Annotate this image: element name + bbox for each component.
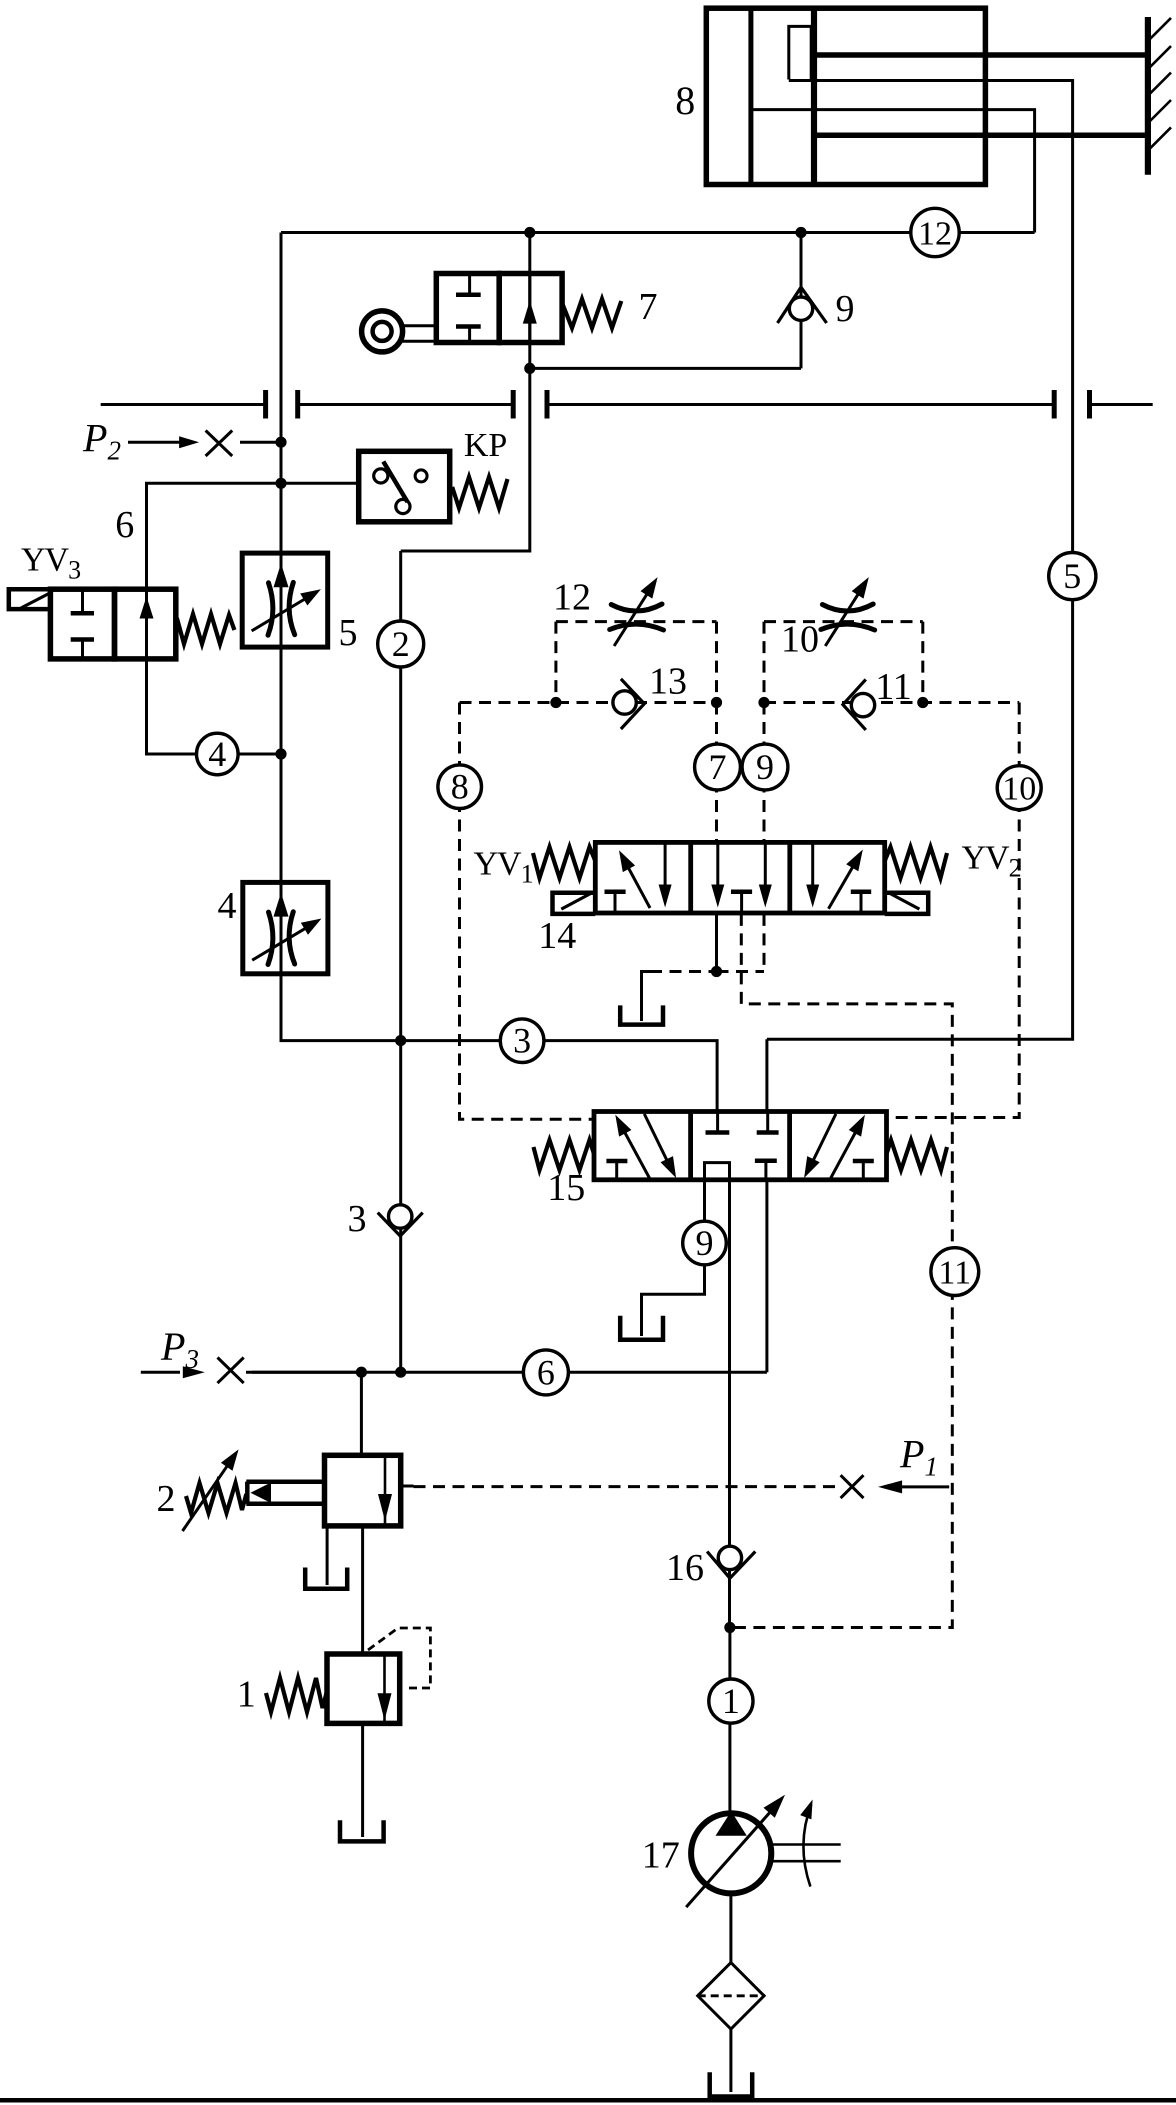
- pilot junction dot b: [711, 697, 722, 708]
- pilot line 10 (dashed, to valve 15 right pilot): [887, 703, 1020, 1118]
- page rule: [0, 2098, 1176, 2103]
- svg-text:17: 17: [642, 1835, 680, 1877]
- wire: check valve 9 branch: [530, 233, 801, 369]
- svg-text:8: 8: [675, 78, 695, 123]
- tank symbol (valve 14 drain): [620, 1005, 663, 1024]
- hydraulic cylinder 8: [675, 8, 985, 184]
- svg-text:10: 10: [781, 619, 819, 661]
- pilot line 8 (dashed, to valve 15 left pilot): [460, 703, 593, 1120]
- svg-text:4: 4: [208, 734, 226, 774]
- wire: line 5 (rod port to valve 15): [767, 81, 1073, 1114]
- wire label 6: [115, 504, 134, 546]
- svg-text:13: 13: [649, 661, 687, 703]
- variable displacement pump 17: [642, 1795, 841, 1907]
- svg-text:9: 9: [756, 747, 774, 787]
- junction node KP tap: [275, 478, 286, 489]
- flow control valve 4: [218, 882, 328, 973]
- pilot bypass loop with throttle 12 / check 13 (dashed): [460, 622, 717, 703]
- spring (valve 15 right): [887, 1140, 948, 1170]
- directional valve 14 (3-pos, solenoid): [538, 842, 884, 957]
- svg-text:14: 14: [538, 915, 576, 957]
- node label circle 2: [378, 621, 424, 667]
- junction node valve 14 drain: [711, 966, 722, 977]
- wire: line 4 (YV3 to node): [147, 659, 282, 754]
- wire: valve 2 drain to tank: [326, 1526, 329, 1585]
- pilot junction dot d: [917, 697, 928, 708]
- pilot line to P1 (dashed): [401, 1485, 839, 1489]
- junction node P2 tap: [275, 437, 286, 448]
- junction node at check 9 tap: [795, 227, 806, 238]
- tank symbol (valve 2 drain): [305, 1568, 347, 1589]
- svg-text:KP: KP: [464, 427, 507, 464]
- svg-text:9: 9: [836, 288, 855, 330]
- check valve 16: [666, 1546, 755, 1589]
- svg-text:6: 6: [537, 1352, 555, 1392]
- valve 14 drain header to tank (dashed): [642, 914, 765, 1021]
- wire: valve 7 branch (node 12 down to line 2): [401, 233, 530, 552]
- wire: pump suction through filter: [729, 1894, 732, 2093]
- svg-text:11: 11: [875, 666, 912, 708]
- pilot line 9 (dashed, to valve 14 port): [763, 703, 766, 842]
- node label circle 8: [438, 765, 482, 809]
- junction node P3/valve2: [356, 1367, 367, 1378]
- tank symbol (valve 15 drain): [620, 1316, 663, 1340]
- node label circle 6: [523, 1350, 568, 1395]
- pilot check valve 11: [843, 666, 912, 730]
- svg-text:4: 4: [218, 885, 237, 927]
- svg-text:5: 5: [339, 612, 358, 654]
- node label circle 12: [911, 208, 959, 256]
- svg-text:7: 7: [639, 286, 658, 328]
- pilot throttle 10: [781, 577, 875, 660]
- pilot line 11 (dashed, valve 14 to pump line node): [730, 914, 952, 1628]
- wire: valve 2 feed: [360, 1372, 363, 1455]
- pilot junction dot c: [758, 697, 769, 708]
- pilot line 7 (dashed, to valve 14 port): [715, 703, 718, 842]
- check valve 3: [348, 1198, 423, 1240]
- svg-text:6: 6: [115, 504, 134, 546]
- svg-text:1: 1: [237, 1673, 256, 1715]
- plate boundary lines with end ticks: [101, 390, 1153, 419]
- pilot check valve 13: [613, 661, 687, 730]
- junction node line 4: [275, 748, 286, 759]
- node label circle 7: [695, 744, 741, 790]
- svg-text:8: 8: [451, 767, 469, 807]
- svg-text:7: 7: [709, 747, 727, 787]
- check valve 9: [778, 287, 855, 330]
- svg-text:3: 3: [348, 1198, 367, 1240]
- svg-text:10: 10: [1002, 771, 1036, 808]
- svg-text:11: 11: [938, 1255, 971, 1292]
- pilot bypass loop with throttle 10 / check 11 (dashed): [764, 622, 1019, 703]
- svg-text:5: 5: [1063, 556, 1081, 596]
- svg-text:2: 2: [392, 624, 410, 664]
- piston rod (hollow): [814, 55, 1148, 135]
- YV2 solenoid and spring (valve 14 right): [885, 840, 1021, 914]
- pressure reducing valve 2: [157, 1449, 401, 1531]
- solenoid valve YV3: [9, 542, 235, 659]
- wire: KP branch / line 6 upper: [147, 483, 359, 589]
- node label circle 5: [1049, 553, 1096, 600]
- tank symbol (suction): [710, 2072, 753, 2096]
- pilot throttle 12: [553, 577, 664, 647]
- wire: line 12 (rod port to node 12): [281, 110, 1035, 233]
- svg-text:16: 16: [666, 1547, 704, 1589]
- wall mount (hatched): [1148, 17, 1171, 175]
- pressure test point P2: [82, 416, 281, 466]
- wire: line 6 (P3 manifold to valve 15 port P): [246, 1180, 767, 1372]
- svg-text:3: 3: [513, 1021, 531, 1061]
- node label circle 10: [997, 766, 1041, 810]
- YV1 solenoid and spring (valve 14 left): [474, 846, 596, 914]
- node label circle 3: [500, 1019, 544, 1063]
- svg-text:12: 12: [553, 577, 591, 619]
- wire: valve 2 to relief valve 1: [361, 1526, 364, 1654]
- wire: valve 15 drain (line 9) to tank: [642, 1180, 705, 1336]
- svg-text:1: 1: [722, 1681, 740, 1721]
- svg-text:2: 2: [157, 1478, 176, 1520]
- wire: pump pressure line (line 1): [728, 1180, 731, 1814]
- node label circle 9 (drain): [683, 1221, 727, 1265]
- suction filter: [698, 1963, 764, 2029]
- node label circle 11: [931, 1248, 979, 1296]
- roller operated valve 7: [362, 274, 658, 352]
- junction node valve 7 outlet: [524, 363, 535, 374]
- svg-text:9: 9: [696, 1223, 714, 1263]
- junction node at valve 7 tap: [524, 227, 535, 238]
- wire: line 1-3 main riser (x=281) and line 3 to valve 15: [281, 233, 717, 1114]
- pressure test point P1: [841, 1432, 950, 1499]
- node label circle 4: [197, 733, 239, 775]
- pressure test point P3: [141, 1324, 362, 1383]
- junction node pump line / pilot 11: [724, 1622, 735, 1633]
- junction node P3/line2: [395, 1367, 406, 1378]
- node label circle 1: [709, 1679, 753, 1723]
- flow control valve 5: [242, 553, 357, 654]
- tank symbol (valve 1 outlet): [340, 1820, 384, 1841]
- wire: relief valve 1 to tank: [361, 1723, 364, 1837]
- svg-text:12: 12: [918, 216, 952, 253]
- relief valve 1 (with vent pilot): [237, 1628, 431, 1723]
- pilot junction dot a: [550, 697, 561, 708]
- directional valve 15 (3-pos, pilot operated): [547, 1112, 886, 1210]
- node label circle 9: [742, 744, 788, 790]
- pressure switch KP: [359, 427, 508, 522]
- wire: line 2 (x=400.7 down to P3 node): [399, 551, 402, 1372]
- spring (valve 15 left): [534, 1140, 595, 1170]
- junction node lines 2/3: [395, 1035, 406, 1046]
